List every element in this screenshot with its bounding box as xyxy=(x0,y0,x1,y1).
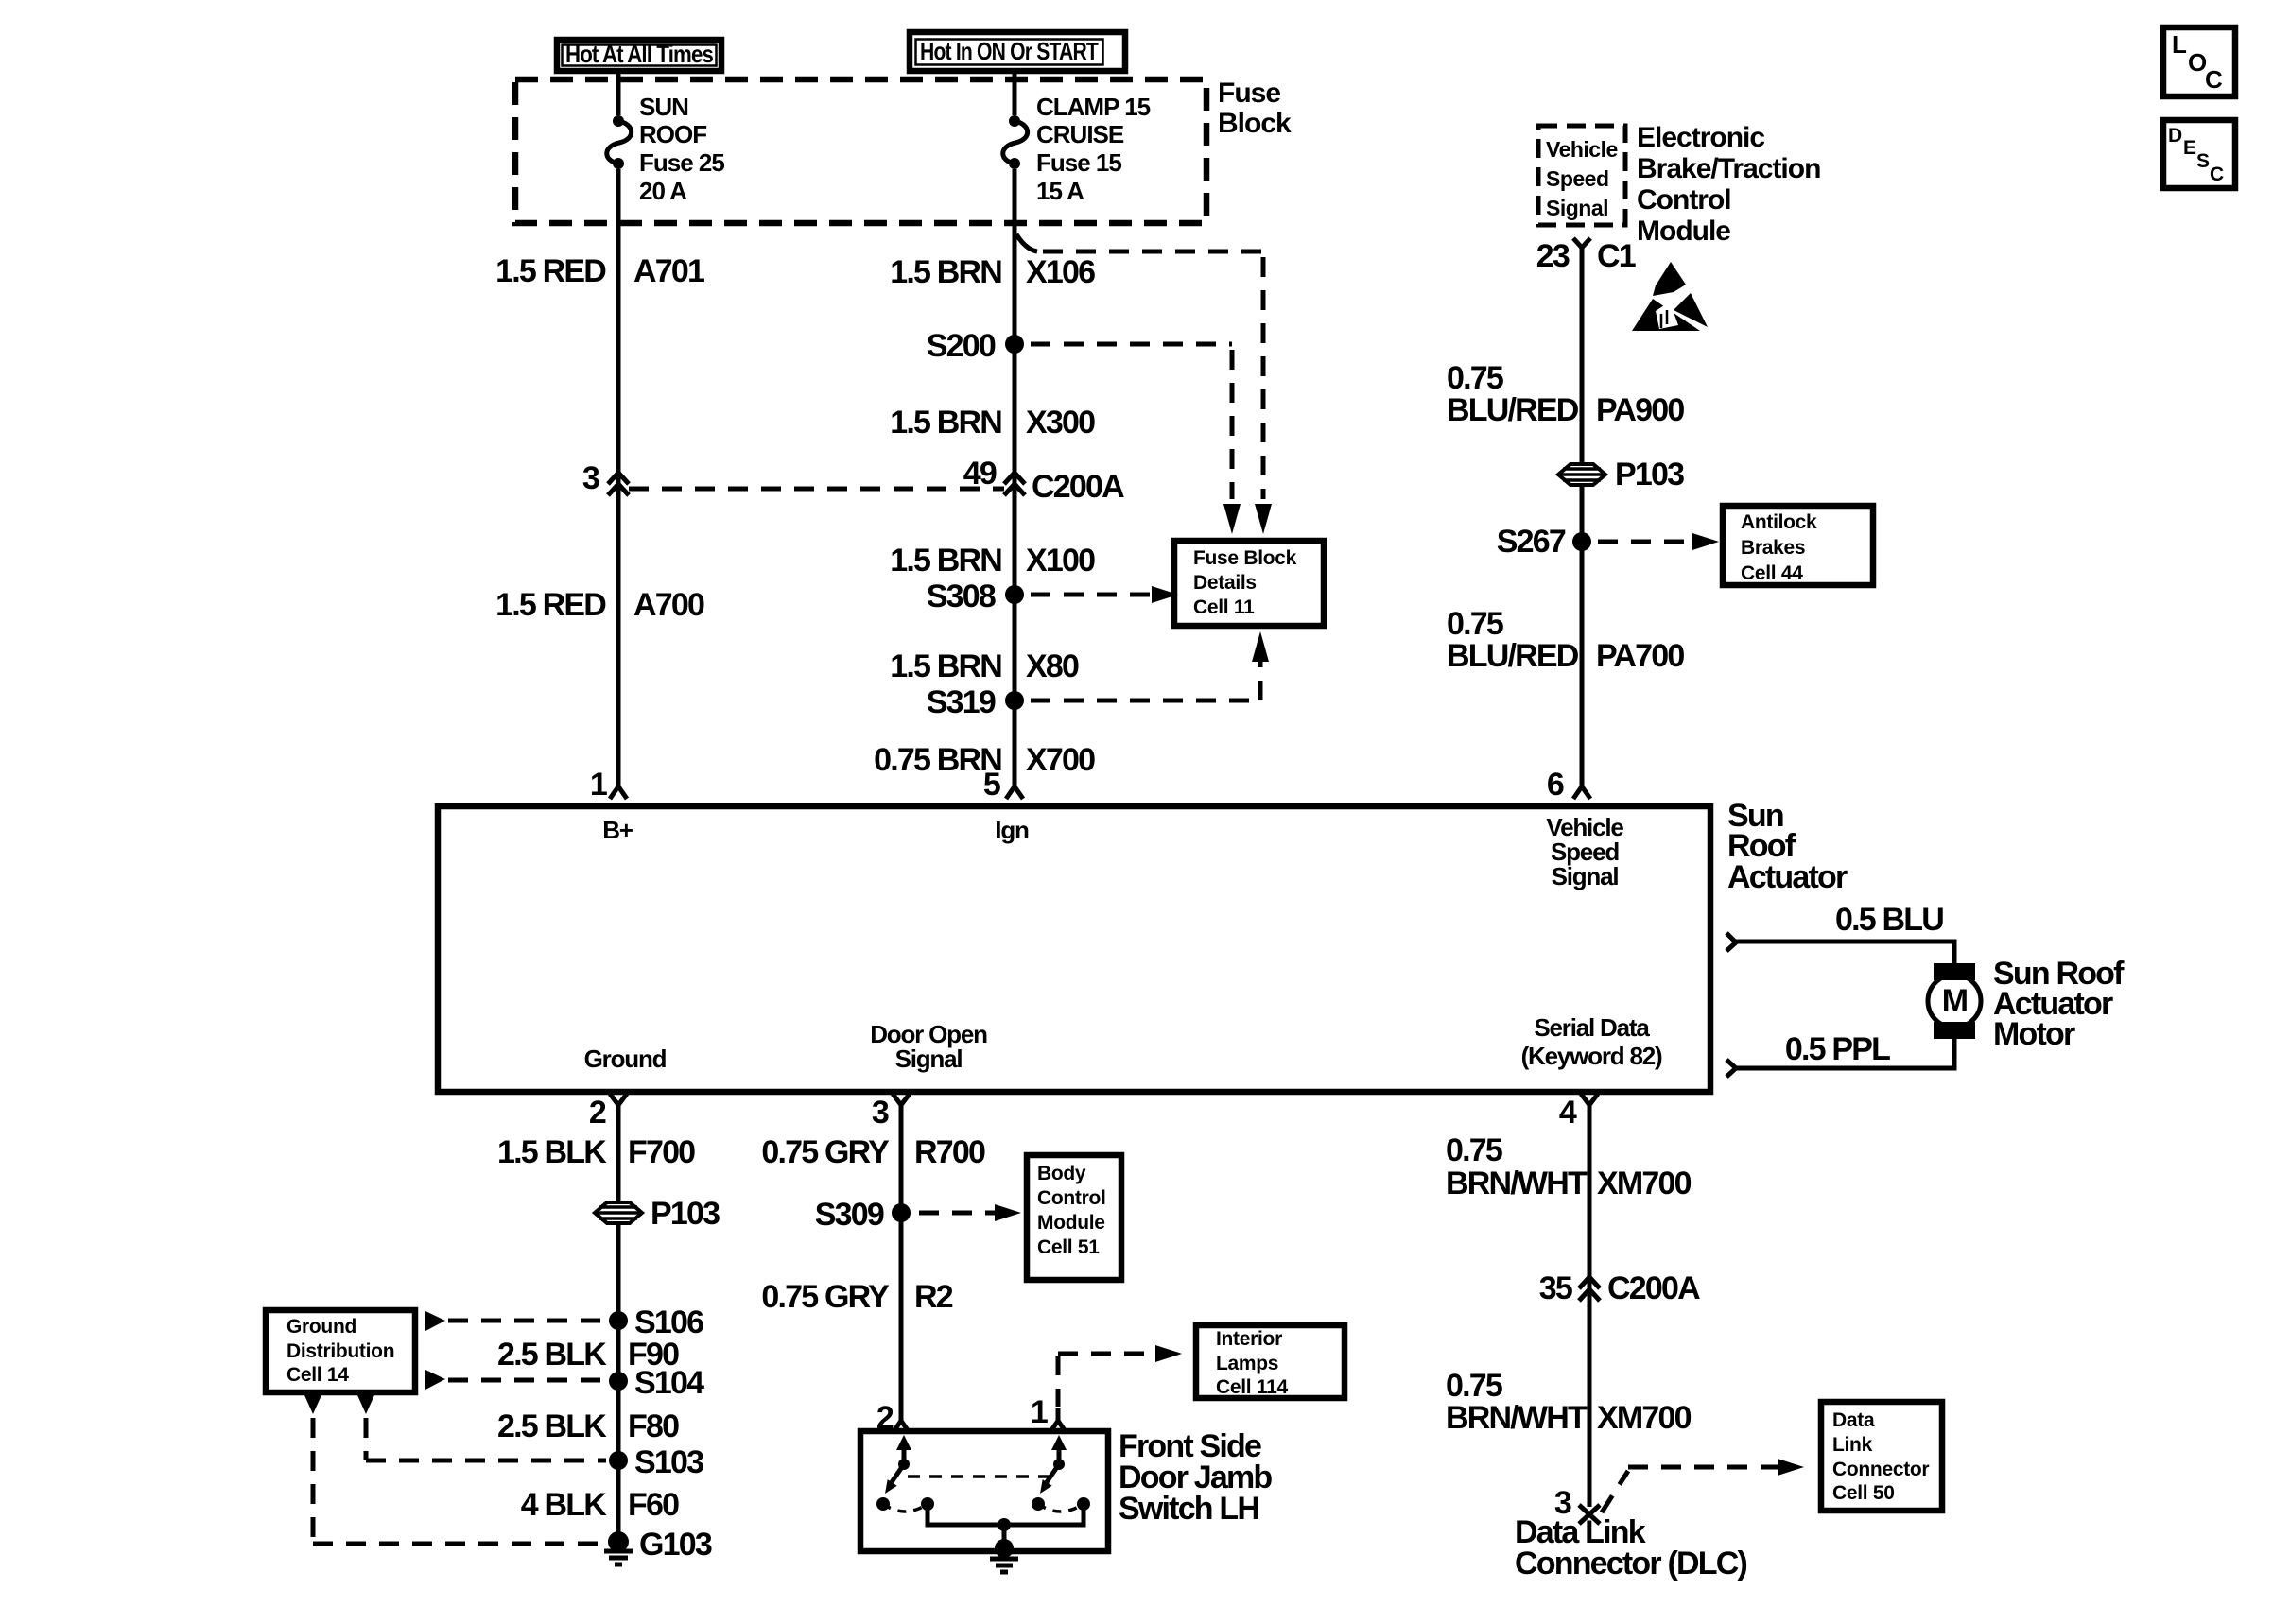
svg-text:S106: S106 xyxy=(634,1304,703,1340)
svg-text:Interior: Interior xyxy=(1216,1328,1282,1350)
svg-text:F60: F60 xyxy=(628,1487,679,1523)
svg-text:Control: Control xyxy=(1637,184,1731,216)
svg-text:X100: X100 xyxy=(1026,543,1095,579)
svg-text:C1: C1 xyxy=(1597,238,1636,274)
svg-text:Module: Module xyxy=(1637,216,1730,247)
svg-text:1.5 RED: 1.5 RED xyxy=(495,587,606,623)
svg-text:15 A: 15 A xyxy=(1036,177,1084,205)
svg-text:Data: Data xyxy=(1832,1409,1875,1431)
svg-text:Block: Block xyxy=(1218,108,1292,139)
svg-text:Brake/Traction: Brake/Traction xyxy=(1637,153,1820,184)
svg-text:O: O xyxy=(2188,48,2207,77)
svg-text:Brakes: Brakes xyxy=(1741,537,1805,559)
svg-text:C200A: C200A xyxy=(1032,469,1124,505)
svg-text:BRN/WHT: BRN/WHT xyxy=(1446,1166,1588,1201)
svg-text:6: 6 xyxy=(1547,767,1564,803)
svg-text:35: 35 xyxy=(1539,1270,1572,1306)
svg-text:Electronic: Electronic xyxy=(1637,122,1764,153)
svg-text:Control: Control xyxy=(1037,1187,1106,1209)
svg-text:Distribution: Distribution xyxy=(286,1340,394,1362)
svg-text:R700: R700 xyxy=(914,1134,985,1170)
svg-text:Antilock: Antilock xyxy=(1741,511,1817,533)
svg-text:X80: X80 xyxy=(1026,648,1079,684)
svg-text:F80: F80 xyxy=(628,1408,679,1444)
svg-text:1: 1 xyxy=(1031,1394,1048,1430)
svg-text:B+: B+ xyxy=(602,816,633,844)
svg-text:E: E xyxy=(2183,137,2196,159)
svg-text:5: 5 xyxy=(983,767,1000,803)
svg-text:23: 23 xyxy=(1536,238,1570,274)
svg-text:P103: P103 xyxy=(1615,457,1684,492)
svg-text:0.75: 0.75 xyxy=(1447,360,1503,396)
svg-text:Fuse 15: Fuse 15 xyxy=(1036,148,1121,177)
svg-text:2.5 BLK: 2.5 BLK xyxy=(497,1337,607,1373)
svg-text:0.75 GRY: 0.75 GRY xyxy=(761,1134,890,1170)
svg-text:CRUISE: CRUISE xyxy=(1036,120,1124,148)
svg-text:1.5 RED: 1.5 RED xyxy=(495,253,606,289)
svg-text:2: 2 xyxy=(589,1095,606,1131)
svg-text:1.5 BRN: 1.5 BRN xyxy=(890,254,1001,290)
svg-text:1.5 BRN: 1.5 BRN xyxy=(890,543,1001,579)
svg-text:Actuator: Actuator xyxy=(1727,859,1848,895)
svg-text:Cell 44: Cell 44 xyxy=(1741,562,1803,584)
svg-text:X106: X106 xyxy=(1026,254,1095,290)
svg-text:S104: S104 xyxy=(634,1365,704,1401)
svg-text:Ground: Ground xyxy=(584,1045,667,1073)
svg-text:Cell 14: Cell 14 xyxy=(286,1364,349,1386)
svg-text:3: 3 xyxy=(872,1095,889,1131)
svg-text:X700: X700 xyxy=(1026,742,1095,778)
svg-text:F700: F700 xyxy=(628,1134,695,1170)
svg-text:4 BLK: 4 BLK xyxy=(521,1487,607,1523)
svg-text:Body: Body xyxy=(1037,1163,1086,1184)
svg-text:XM700: XM700 xyxy=(1597,1400,1692,1436)
svg-text:1: 1 xyxy=(590,767,607,803)
svg-text:(Keyword 82): (Keyword 82) xyxy=(1521,1042,1662,1070)
svg-text:C: C xyxy=(2210,164,2224,185)
svg-text:Cell 50: Cell 50 xyxy=(1832,1482,1895,1504)
svg-text:Signal: Signal xyxy=(1552,862,1619,890)
svg-text:A701: A701 xyxy=(633,253,704,289)
svg-text:4: 4 xyxy=(1559,1095,1577,1131)
svg-text:49: 49 xyxy=(963,456,997,492)
svg-text:ROOF: ROOF xyxy=(639,120,706,148)
svg-text:P103: P103 xyxy=(651,1196,720,1232)
svg-text:Ign: Ign xyxy=(995,816,1029,844)
svg-text:Motor: Motor xyxy=(1993,1016,2075,1052)
svg-text:Hot In ON Or START: Hot In ON Or START xyxy=(920,37,1099,65)
svg-text:1.5 BRN: 1.5 BRN xyxy=(890,405,1001,441)
svg-text:Connector: Connector xyxy=(1832,1459,1929,1480)
svg-text:Details: Details xyxy=(1193,572,1257,594)
svg-text:0.5 BLU: 0.5 BLU xyxy=(1835,902,1943,938)
svg-text:G103: G103 xyxy=(639,1527,712,1563)
svg-text:SUN: SUN xyxy=(639,93,688,121)
svg-text:0.75: 0.75 xyxy=(1446,1368,1502,1404)
svg-text:0.75 GRY: 0.75 GRY xyxy=(761,1279,890,1315)
svg-text:S319: S319 xyxy=(927,684,996,720)
svg-text:S309: S309 xyxy=(815,1197,884,1233)
svg-text:1.5 BLK: 1.5 BLK xyxy=(497,1134,607,1170)
svg-text:Fuse: Fuse xyxy=(1218,78,1280,109)
svg-text:0.75: 0.75 xyxy=(1446,1132,1502,1168)
svg-text:3: 3 xyxy=(582,460,599,496)
svg-text:Module: Module xyxy=(1037,1212,1105,1234)
svg-text:S267: S267 xyxy=(1497,524,1566,560)
svg-text:Switch LH: Switch LH xyxy=(1119,1491,1258,1527)
svg-text:S308: S308 xyxy=(927,579,996,614)
svg-text:D: D xyxy=(2168,125,2182,147)
svg-text:Signal: Signal xyxy=(1546,196,1608,220)
svg-text:0.75: 0.75 xyxy=(1447,606,1503,642)
svg-text:Hot At All Times: Hot At All Times xyxy=(565,40,713,68)
svg-text:0.5 PPL: 0.5 PPL xyxy=(1785,1031,1890,1067)
svg-text:Signal: Signal xyxy=(895,1045,963,1073)
svg-text:C: C xyxy=(2205,65,2223,94)
svg-text:Vehicle: Vehicle xyxy=(1546,137,1618,162)
svg-text:Link: Link xyxy=(1832,1434,1873,1456)
svg-text:R2: R2 xyxy=(914,1279,953,1315)
svg-text:S103: S103 xyxy=(634,1444,703,1480)
svg-text:Cell 11: Cell 11 xyxy=(1193,596,1255,618)
svg-text:20 A: 20 A xyxy=(639,177,687,205)
svg-text:L: L xyxy=(2172,30,2187,59)
svg-text:S200: S200 xyxy=(927,328,996,364)
svg-text:Lamps: Lamps xyxy=(1216,1353,1278,1374)
svg-text:1.5 BRN: 1.5 BRN xyxy=(890,648,1001,684)
svg-text:Connector (DLC): Connector (DLC) xyxy=(1515,1546,1746,1581)
svg-text:Speed: Speed xyxy=(1546,166,1609,191)
svg-text:PA900: PA900 xyxy=(1596,392,1684,428)
svg-text:C200A: C200A xyxy=(1607,1270,1700,1306)
svg-text:Cell 114: Cell 114 xyxy=(1216,1376,1288,1398)
svg-text:X300: X300 xyxy=(1026,405,1095,441)
svg-text:XM700: XM700 xyxy=(1597,1166,1692,1201)
svg-text:S: S xyxy=(2196,150,2210,172)
svg-text:BLU/RED: BLU/RED xyxy=(1447,638,1579,674)
svg-text:Serial Data: Serial Data xyxy=(1534,1013,1650,1042)
svg-text:Cell 51: Cell 51 xyxy=(1037,1236,1100,1258)
svg-text:Fuse Block: Fuse Block xyxy=(1193,547,1297,569)
svg-text:M: M xyxy=(1942,983,1968,1019)
svg-text:A700: A700 xyxy=(633,587,704,623)
svg-text:PA700: PA700 xyxy=(1596,638,1684,674)
svg-text:BRN/WHT: BRN/WHT xyxy=(1446,1400,1588,1436)
svg-text:2.5 BLK: 2.5 BLK xyxy=(497,1408,607,1444)
svg-text:Fuse 25: Fuse 25 xyxy=(639,148,724,177)
svg-text:Ground: Ground xyxy=(286,1316,356,1338)
svg-text:CLAMP 15: CLAMP 15 xyxy=(1036,93,1151,121)
svg-text:BLU/RED: BLU/RED xyxy=(1447,392,1579,428)
